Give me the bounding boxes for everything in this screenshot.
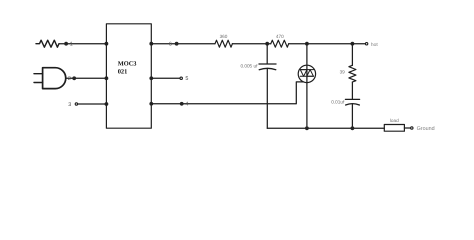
capacitor C1 bottom lead bbox=[266, 69, 268, 129]
junction dot at MOC pin5 bbox=[149, 76, 153, 80]
wire pin1 to MOC left bbox=[59, 43, 106, 45]
wire 470 to triac top node bbox=[289, 43, 353, 45]
capacitor C1 0.005uf top lead bbox=[266, 44, 268, 64]
resistor R4 39 zigzag bbox=[349, 65, 356, 82]
junction dot at MOC pin2 bbox=[105, 76, 109, 80]
svg-text:470: 470 bbox=[276, 34, 284, 39]
wire load to ground terminal bbox=[404, 127, 410, 129]
svg-text:MOC3: MOC3 bbox=[118, 60, 137, 67]
resistor R4 39 bottom lead bbox=[351, 82, 353, 99]
wire MOC pin4 to triac gate bbox=[151, 82, 303, 104]
svg-text:0.01uf: 0.01uf bbox=[331, 99, 345, 104]
triac Q1 top rail bbox=[300, 69, 313, 71]
capacitor C1 curved bottom plate bbox=[259, 68, 276, 69]
capacitor C2 curved bottom plate bbox=[346, 104, 360, 105]
svg-text:6: 6 bbox=[169, 42, 172, 48]
svg-text:2: 2 bbox=[68, 76, 71, 82]
junction dot at MOC pin3 bbox=[105, 102, 109, 106]
triac Q1 left triangle (points down) bbox=[300, 70, 307, 77]
junction dot at MOC pin6 bbox=[149, 42, 153, 46]
svg-text:39: 39 bbox=[340, 70, 346, 75]
svg-text:1: 1 bbox=[70, 42, 73, 48]
junction dot C2 bottom bbox=[351, 126, 355, 130]
wire to hot terminal bbox=[352, 43, 365, 45]
svg-text:load: load bbox=[390, 118, 399, 123]
node junction dot triac top bbox=[305, 42, 309, 46]
svg-text:360: 360 bbox=[220, 34, 228, 39]
node junction dot hot branch bbox=[351, 42, 355, 46]
triac Q1 circle bbox=[298, 65, 315, 82]
wire MOC pin6 to resistor 360 bbox=[151, 43, 215, 45]
terminal hot open circle bbox=[365, 43, 367, 45]
terminal pin5 open circle bbox=[180, 77, 182, 79]
terminal Ground open circle bbox=[411, 127, 413, 129]
svg-text:hot: hot bbox=[371, 42, 378, 48]
op-amp U1 MOC3021 body rectangle bbox=[106, 24, 151, 128]
bottom return wire bbox=[267, 127, 384, 129]
gate input stub B bbox=[34, 82, 43, 84]
node 4 junction dot bbox=[180, 102, 184, 106]
resistor R4 39 top lead bbox=[351, 44, 353, 66]
junction dot triac bottom bbox=[305, 126, 309, 130]
junction dot at MOC pin1 bbox=[105, 42, 109, 46]
resistor R2 360 bbox=[215, 40, 232, 47]
wire 360 to 470 bbox=[232, 43, 270, 45]
load resistor box bbox=[384, 125, 404, 132]
wire gate output to MOC pin2 bbox=[66, 77, 107, 79]
AND gate U2 (driver gate) bbox=[43, 68, 66, 89]
node 1 junction dot bbox=[64, 42, 68, 46]
svg-text:021: 021 bbox=[118, 68, 128, 75]
svg-text:4: 4 bbox=[185, 102, 188, 108]
terminal node 3 open circle bbox=[75, 103, 77, 105]
capacitor C2 bottom lead bbox=[351, 104, 353, 128]
triac Q1 main vertical lead bbox=[306, 44, 308, 129]
wire MOC pin5 stub bbox=[151, 77, 179, 79]
gate input stub A bbox=[34, 73, 43, 75]
resistor R1 (series input resistor, top-left) bbox=[36, 40, 59, 47]
triac Q1 bottom rail bbox=[300, 75, 313, 77]
node 2 junction dot bbox=[72, 76, 76, 80]
svg-text:Ground: Ground bbox=[417, 126, 435, 132]
capacitor C2 0.01uf top plate bbox=[345, 98, 359, 100]
svg-text:3: 3 bbox=[68, 102, 71, 108]
node junction dot at C1 top bbox=[265, 42, 269, 46]
wire node3 to MOC pin3 bbox=[78, 103, 107, 105]
svg-text:5: 5 bbox=[185, 76, 188, 82]
capacitor C1 top plate bbox=[259, 63, 276, 65]
svg-text:0.005 uf: 0.005 uf bbox=[240, 64, 258, 69]
triac Q1 right triangle (points up) bbox=[307, 70, 314, 77]
resistor R3 470 bbox=[271, 40, 289, 47]
junction dot at MOC pin4 bbox=[149, 102, 153, 106]
node 6 junction dot bbox=[175, 42, 179, 46]
